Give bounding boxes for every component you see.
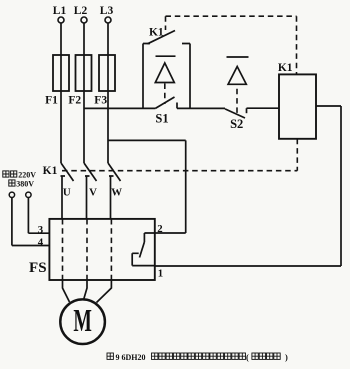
- svg-text:380V: 380V: [16, 179, 34, 188]
- svg-text:K1: K1: [149, 27, 164, 39]
- svg-text:2: 2: [157, 223, 162, 235]
- svg-text:K1: K1: [278, 62, 293, 74]
- svg-text:F3: F3: [94, 95, 107, 107]
- svg-text:220V: 220V: [18, 170, 36, 179]
- svg-text:9 6DH20: 9 6DH20: [116, 353, 146, 362]
- svg-text:V: V: [89, 187, 97, 199]
- svg-text:W: W: [111, 187, 122, 199]
- svg-text:3: 3: [38, 224, 44, 236]
- svg-text:F2: F2: [68, 95, 81, 107]
- svg-text:): ): [285, 352, 288, 362]
- svg-text:L2: L2: [74, 5, 88, 17]
- svg-text:M: M: [73, 302, 92, 338]
- svg-text:FS: FS: [29, 260, 47, 276]
- svg-text:L3: L3: [100, 5, 114, 17]
- svg-text:L1: L1: [53, 5, 67, 17]
- svg-text:1: 1: [158, 268, 163, 280]
- svg-text:(: (: [246, 352, 249, 362]
- svg-text:4: 4: [38, 236, 44, 248]
- svg-text:K1: K1: [43, 165, 58, 177]
- svg-text:S1: S1: [155, 112, 168, 126]
- svg-text:U: U: [63, 187, 71, 199]
- svg-text:F1: F1: [45, 95, 58, 107]
- svg-text:S2: S2: [230, 117, 243, 131]
